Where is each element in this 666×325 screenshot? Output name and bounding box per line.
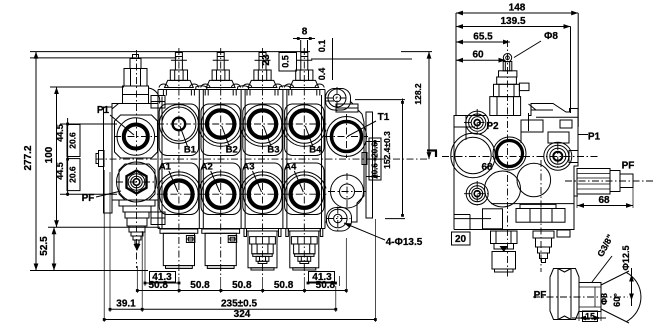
outlet side boss — [362, 153, 367, 165]
tie bolt boss bump — [238, 86, 249, 90]
stem base 3 — [254, 70, 271, 80]
dim 277.2 overall height — [35, 52, 37, 271]
PF port circle — [117, 162, 157, 202]
inlet centerline — [136, 50, 138, 268]
bonnet ears 2 — [201, 84, 211, 87]
studs 1 — [162, 90, 164, 96]
circle centerline ticks 4 — [282, 123, 326, 125]
dim 68 (fitting) — [577, 205, 633, 207]
svg-text:148: 148 — [509, 3, 526, 14]
svg-text:P1: P1 — [588, 132, 601, 143]
spool section 4 stem — [301, 53, 308, 71]
svg-text:B2: B2 — [226, 145, 238, 156]
main centerline — [96, 158, 427, 160]
studs 3 — [246, 90, 248, 96]
bonnet stack — [499, 71, 517, 77]
svg-text:324: 324 — [234, 309, 251, 320]
inlet body — [112, 104, 158, 201]
boot section 2 (plain) — [202, 229, 240, 233]
outlet section body — [325, 101, 364, 222]
relief cone tip — [134, 244, 141, 251]
svg-text:128.2: 128.2 — [413, 83, 423, 105]
boot2 centerline — [540, 160, 542, 272]
top mounting ear — [326, 89, 351, 111]
stem base 2 — [212, 70, 229, 80]
bonnet ears 3 — [243, 84, 253, 87]
bonnet 4 — [290, 80, 319, 87]
PF fitting centerline — [565, 180, 655, 182]
spool centerline 1 — [178, 48, 180, 277]
svg-text:60: 60 — [472, 50, 484, 61]
svg-text:P2: P2 — [486, 121, 499, 132]
PF port pad — [119, 164, 155, 200]
dim 152.4±0.3 — [402, 99, 404, 217]
svg-text:60°: 60° — [612, 293, 622, 307]
clevis body — [503, 62, 512, 71]
svg-text:15: 15 — [585, 312, 595, 322]
svg-text:0.4: 0.4 — [317, 68, 327, 81]
center bore circle — [493, 137, 526, 170]
section face plate B 1 — [159, 104, 198, 156]
svg-text:152.4±0.3: 152.4±0.3 — [382, 131, 392, 169]
bleed screw 1 — [186, 236, 195, 243]
circle centerline ticks 3 — [241, 123, 285, 125]
section face plate A 2 — [201, 163, 240, 215]
svg-text:50.8: 50.8 — [274, 280, 294, 291]
small nut right of bonnet — [519, 83, 529, 91]
section face plate B 2 — [201, 104, 240, 156]
dim chain 44.5 / 20.6 boxes — [67, 118, 69, 196]
right view boot 2 — [533, 231, 554, 238]
svg-text:PF: PF — [82, 193, 95, 204]
svg-text:20.6: 20.6 — [68, 132, 78, 149]
svg-text:B1: B1 — [184, 145, 197, 156]
dim row 50.8 x5 — [137, 290, 346, 292]
svg-text:20.6: 20.6 — [371, 142, 380, 158]
svg-text:44.5: 44.5 — [55, 162, 65, 180]
bonnet 1 — [165, 80, 194, 87]
inlet end plate — [104, 107, 113, 213]
60 deg cone callout — [601, 271, 629, 285]
svg-text:B3: B3 — [267, 145, 279, 156]
svg-text:P1: P1 — [97, 105, 110, 116]
tie rod nut top-left — [151, 96, 165, 109]
stem base 4 — [296, 70, 313, 80]
spool centerline 3 — [262, 48, 264, 277]
valve body band — [158, 89, 325, 91]
inlet bottom relief stack — [119, 200, 155, 206]
PF plug thread end — [579, 283, 601, 312]
spool section 2 stem — [217, 53, 224, 71]
dim 20.6/20.6 (right) — [374, 142, 376, 177]
dim 41.3 right — [308, 282, 336, 284]
section face plate A 1 — [159, 163, 198, 215]
bonnet chamfer arc — [149, 88, 160, 104]
circle centerline ticks 2 — [199, 123, 243, 125]
svg-text:50.8: 50.8 — [148, 280, 168, 291]
tolerance 0.1 / 0.4 — [332, 38, 334, 80]
bottom mounting ear — [327, 208, 352, 232]
section face plate B 4 — [285, 104, 324, 156]
port B2 circle — [201, 105, 240, 144]
svg-text:A3: A3 — [242, 162, 254, 173]
outlet lower circle — [331, 175, 364, 208]
circle centerline ticks 1 — [157, 123, 201, 125]
svg-text:50.8: 50.8 — [232, 280, 252, 291]
right face bolt — [544, 142, 572, 170]
dim 39.1 and 235±0.5 — [110, 308, 336, 310]
port P1 circle — [117, 118, 155, 156]
bolt P2 — [466, 111, 489, 134]
dim 139.5 — [456, 26, 571, 28]
tie bolt boss bump — [279, 86, 290, 90]
bottom small stub — [557, 230, 570, 237]
svg-text:Φ8: Φ8 — [599, 293, 609, 305]
PF plug centerline — [533, 296, 628, 298]
bonnet ears 4 — [284, 84, 294, 87]
section divider x=282.9 — [282, 90, 284, 229]
tie rod nut bottom-left — [151, 212, 165, 225]
svg-text:44.5: 44.5 — [55, 124, 65, 142]
bonnet ears 1 — [159, 84, 169, 87]
spool section 3 stem — [259, 53, 266, 71]
svg-text:52.5: 52.5 — [39, 236, 50, 256]
ext lines to 50.8 row — [136, 266, 138, 293]
right view boot 1 — [491, 231, 518, 244]
bonnet 2 — [206, 80, 235, 87]
section face plate A 4 — [285, 163, 324, 215]
boot section 4 (detent) — [288, 229, 320, 232]
tie bolt boss bump — [196, 86, 207, 90]
svg-text:Φ8: Φ8 — [544, 31, 558, 42]
svg-text:A1: A1 — [159, 162, 172, 173]
big bore circle left — [451, 133, 495, 177]
svg-text:68: 68 — [598, 195, 610, 206]
bleed screw 2 — [228, 236, 237, 243]
port A1 circle — [160, 175, 199, 214]
svg-text:PF: PF — [534, 290, 547, 301]
port B3 circle — [243, 105, 282, 144]
dim 100 — [56, 87, 58, 227]
section face plate B 3 — [243, 104, 282, 156]
svg-text:23: 23 — [261, 54, 272, 66]
PF plug detail hex body — [550, 269, 579, 320]
svg-text:B4: B4 — [309, 145, 322, 156]
dim 41.3 left — [145, 282, 179, 284]
svg-text:20.6: 20.6 — [68, 166, 78, 183]
body interior details — [454, 126, 475, 128]
dim phi12.5 — [631, 268, 633, 306]
P1 circle horizontal centerline — [114, 136, 157, 138]
svg-text:A4: A4 — [284, 162, 297, 173]
svg-text:PF: PF — [622, 161, 635, 172]
lever centerline — [507, 40, 509, 278]
port A2 circle — [201, 175, 240, 214]
outlet end plate — [366, 112, 373, 218]
svg-text:8: 8 — [302, 27, 308, 38]
relief valve cap stack — [133, 55, 139, 59]
inlet side boss — [99, 151, 105, 167]
dim 15 — [578, 312, 580, 322]
dim 20 box — [452, 232, 471, 245]
section divider x=199.3 — [198, 90, 200, 229]
label G3/8 — [592, 256, 612, 282]
stem base 1 — [170, 70, 187, 80]
lower bore circles — [485, 171, 521, 207]
svg-text:20.6: 20.6 — [371, 163, 380, 179]
svg-text:235±0.5: 235±0.5 — [221, 299, 258, 310]
spool centerline 4 — [303, 48, 305, 277]
svg-text:0.5: 0.5 — [281, 55, 291, 68]
main horizontal centerline right view — [442, 156, 600, 158]
right view body outline — [454, 104, 578, 230]
dim 65.5 — [456, 41, 510, 43]
dim 52.5 — [53, 227, 55, 270]
small bolt lower left — [466, 183, 488, 205]
port A4 circle — [285, 175, 324, 214]
dim 324 — [104, 319, 375, 321]
svg-text:139.5: 139.5 — [500, 16, 525, 27]
section divider x=241.1 — [240, 90, 242, 229]
studs 4 — [288, 90, 290, 96]
dim 60 — [456, 59, 506, 61]
svg-text:65.5: 65.5 — [473, 32, 493, 43]
P1 port pad — [115, 115, 158, 158]
dim 148 — [456, 12, 578, 14]
boot section 1 (plain) — [160, 229, 198, 233]
bonnet 3 — [248, 80, 277, 87]
studs 2 — [204, 90, 206, 96]
svg-text:Φ12.5: Φ12.5 — [621, 246, 631, 271]
svg-text:A2: A2 — [201, 162, 213, 173]
PF circle horizontal centerline — [116, 181, 157, 183]
svg-text:0.1: 0.1 — [317, 40, 327, 53]
dim 128.2 — [428, 52, 430, 160]
nut above T1 — [336, 104, 358, 112]
spool centerline 2 — [220, 48, 222, 277]
port T1 circle — [327, 117, 367, 157]
svg-text:68: 68 — [481, 162, 493, 173]
svg-text:50.8: 50.8 — [316, 280, 336, 291]
port B4 circle — [285, 105, 324, 144]
section mark — [427, 149, 437, 151]
svg-text:20: 20 — [455, 234, 467, 245]
svg-text:277.2: 277.2 — [23, 145, 34, 170]
svg-text:T1: T1 — [378, 112, 390, 123]
lever clevis pivot — [503, 54, 511, 62]
port A3 circle — [243, 175, 282, 214]
svg-text:4-Φ13.5: 4-Φ13.5 — [386, 237, 423, 248]
svg-text:39.1: 39.1 — [116, 299, 136, 310]
svg-text:50.8: 50.8 — [190, 280, 210, 291]
port B1 circle — [159, 105, 198, 144]
svg-text:100: 100 — [44, 146, 55, 163]
boot section 3 (detent) — [247, 229, 279, 232]
section face plate A 3 — [243, 163, 282, 215]
PF fitting (right side) — [577, 169, 610, 195]
spool section 1 stem — [175, 53, 182, 71]
